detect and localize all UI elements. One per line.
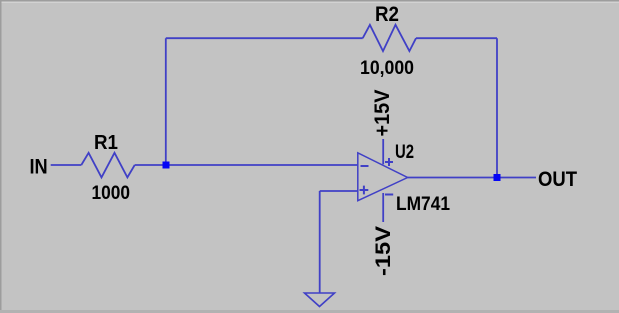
junction at output node [494,174,501,181]
ground [305,293,335,307]
wire top right [416,37,497,39]
resistor R2 [363,25,416,51]
wire V- pin [382,193,384,222]
wire R1 to op-amp inverting input [135,164,358,166]
svg-text:IN: IN [30,156,48,179]
pin marker non-inverting plus [360,186,369,195]
wire top left [166,37,363,39]
svg-text:OUT: OUT [538,168,577,191]
svg-text:R1: R1 [94,132,118,154]
svg-text:10,000: 10,000 [360,57,414,79]
svg-text:1000: 1000 [92,182,131,204]
svg-text:+15V: +15V [371,90,394,137]
svg-text:R2: R2 [375,3,399,26]
svg-text:U2: U2 [395,142,414,163]
wire V+ pin [382,139,384,164]
pin marker inverting minus [361,165,369,167]
resistor R1 [81,153,134,178]
junction at inverting node [163,162,170,169]
wire to ground [319,191,321,293]
wire left vertical feedback [165,38,167,165]
pin marker V- minus [385,194,393,196]
svg-text:-15V: -15V [372,226,395,276]
wire right vertical feedback [496,38,498,177]
pin marker V+ plus [385,158,393,166]
wire IN lead [51,164,82,166]
wire output [408,177,536,179]
op-amp U2 [358,153,408,201]
wire non-inverting input [320,190,358,192]
svg-text:LM741: LM741 [396,193,450,215]
